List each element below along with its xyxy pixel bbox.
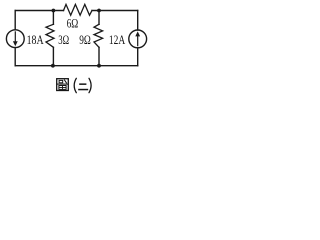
junction node top-right: [97, 9, 101, 13]
caption close paren: [89, 78, 91, 92]
resistor R 3ohm zigzag: [46, 24, 54, 47]
wire left branch upper: [14, 11, 16, 30]
wire left branch lower: [14, 48, 16, 66]
svg-text:3Ω: 3Ω: [58, 32, 69, 47]
wire 3ohm branch bottom stub: [52, 47, 54, 65]
resistor R 6ohm zigzag: [64, 4, 93, 15]
wire right branch lower: [137, 48, 139, 66]
caption figure glyph tu: [57, 79, 69, 91]
junction node top-left: [52, 9, 56, 13]
wire bottom rail: [15, 65, 138, 67]
svg-text:9Ω: 9Ω: [79, 32, 91, 47]
wire top rail left segment: [15, 10, 63, 12]
wire 9ohm branch top stub: [98, 11, 100, 25]
svg-text:18A: 18A: [27, 32, 44, 47]
svg-text:12A: 12A: [109, 32, 126, 47]
current source I1: [6, 30, 24, 48]
wire right branch upper: [137, 11, 139, 31]
resistor R 9ohm zigzag: [94, 24, 103, 47]
junction node bottom-left: [51, 64, 55, 68]
wire 9ohm branch bottom stub: [98, 47, 100, 65]
junction node bottom-right: [97, 64, 101, 68]
wire 3ohm branch top stub: [52, 11, 54, 25]
svg-text:6Ω: 6Ω: [67, 16, 79, 31]
caption numeral two glyph er: [78, 83, 88, 90]
wire top rail right segment: [92, 10, 138, 12]
current source I2: [129, 30, 147, 48]
caption open paren: [74, 78, 76, 92]
